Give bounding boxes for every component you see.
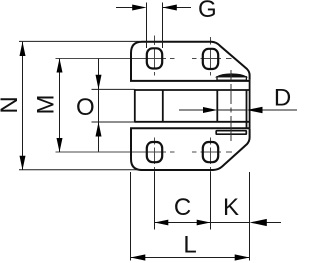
dimension N line with arrows [22,42,24,170]
centerline right slots vertical [210,37,212,172]
band internal vertical [162,90,164,122]
dimension M line with arrows [59,59,61,153]
pin bottom retainer bar [216,131,246,135]
dimension O extension lines [92,89,135,122]
dimension K line with outside arrow [211,222,282,224]
svg-text:L: L [183,232,196,259]
centerline pin vertical [230,70,232,141]
dimension C/K extension lines [155,172,211,230]
middle band top edge [135,89,250,91]
svg-text:D: D [274,84,291,111]
centerline top slots horizontal [56,58,232,60]
svg-text:O: O [76,94,95,121]
dimension L extension lines [131,172,250,261]
slot top-right [203,49,218,69]
pin left edge [216,90,218,122]
svg-text:G: G [198,0,217,23]
svg-text:K: K [223,194,239,221]
middle band right edge [249,80,251,129]
bottom plate outline [131,128,250,170]
dimension G extension lines [147,3,163,49]
dimension C line with arrows [155,222,211,224]
svg-text:C: C [174,194,191,221]
middle band left edge [134,89,136,122]
dimension D line with arrows [179,109,297,111]
pin head washer rect [217,77,246,80]
dimension N extension lines [19,41,140,169]
pin head dome (filled arc) [217,74,247,77]
middle band bottom edge [135,121,250,123]
slot top-left [147,48,162,68]
dimension O line with outside arrows [98,59,100,152]
dimension L line with arrows [131,257,250,259]
centerline left slots vertical [154,36,156,173]
svg-text:N: N [0,96,23,113]
slot bottom-right [203,142,218,162]
bottom plate top edge [130,127,250,129]
centerline bottom slots horizontal [56,151,233,153]
slot bottom-left [147,142,162,162]
svg-text:M: M [33,95,60,115]
top plate bottom edge [130,80,250,82]
pin right edge [246,90,248,128]
dimension G line with arrows [116,7,191,9]
top plate outline [131,42,250,81]
